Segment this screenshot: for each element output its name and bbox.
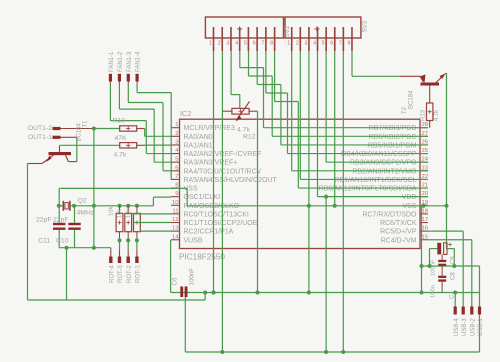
svg-text:C10: C10 <box>56 238 69 245</box>
svg-text:IC2: IC2 <box>180 109 192 118</box>
svg-text:100nF: 100nF <box>431 259 437 276</box>
svg-text:RB7/KBI3/PGD: RB7/KBI3/PGD <box>369 125 417 132</box>
svg-text:3: 3 <box>304 41 307 47</box>
svg-text:14: 14 <box>172 234 179 240</box>
svg-text:MCLR/VPP/RE3: MCLR/VPP/RE3 <box>184 125 235 132</box>
svg-text:11: 11 <box>172 208 178 214</box>
svg-text:RC7/RX/DT/SDO: RC7/RX/DT/SDO <box>362 211 417 218</box>
svg-text:FAN1-4: FAN1-4 <box>136 51 142 72</box>
svg-text:RB2/AN8/INT2/VMO: RB2/AN8/INT2/VMO <box>352 168 417 175</box>
svg-text:RA1/AN1: RA1/AN1 <box>184 142 213 149</box>
svg-text:ROT-1: ROT-1 <box>136 265 142 283</box>
svg-text:15: 15 <box>422 234 429 240</box>
svg-text:USB-3: USB-3 <box>462 318 468 336</box>
svg-text:10k: 10k <box>109 207 115 216</box>
svg-text:ROT-2: ROT-2 <box>127 265 133 283</box>
svg-text:4MHz: 4MHz <box>77 210 95 217</box>
svg-text:17: 17 <box>422 217 429 223</box>
svg-text:RC5/D+/VP: RC5/D+/VP <box>380 229 417 236</box>
svg-text:C9: C9 <box>451 256 457 264</box>
svg-text:10k: 10k <box>126 209 132 218</box>
svg-text:FAN1-2: FAN1-2 <box>118 51 124 72</box>
svg-text:USB-1: USB-1 <box>478 318 484 336</box>
svg-text:USB-4: USB-4 <box>454 318 460 336</box>
svg-text:5: 5 <box>322 41 325 47</box>
svg-text:VUSB: VUSB <box>184 237 203 244</box>
svg-text:RB4/KBI0/AN11/CSSPP: RB4/KBI0/AN11/CSSPP <box>341 151 417 158</box>
svg-text:Q2: Q2 <box>78 198 87 205</box>
svg-text:PIC18F2550: PIC18F2550 <box>179 253 225 262</box>
svg-text:R10: R10 <box>113 118 126 125</box>
svg-text:1: 1 <box>287 41 290 47</box>
svg-text:ROT-3: ROT-3 <box>118 265 124 283</box>
svg-text:5: 5 <box>244 41 247 47</box>
svg-text:RA3/AN3/VREF+: RA3/AN3/VREF+ <box>184 160 238 167</box>
svg-text:4: 4 <box>313 41 316 47</box>
svg-text:ROT-4: ROT-4 <box>109 265 115 283</box>
svg-text:1: 1 <box>209 41 212 47</box>
svg-text:12: 12 <box>172 217 179 223</box>
svg-text:R12: R12 <box>243 134 256 141</box>
svg-text:RC0/T1OSO/T13CKI: RC0/T1OSO/T13CKI <box>184 211 249 218</box>
svg-text:C11: C11 <box>38 238 50 245</box>
svg-text:4.7k: 4.7k <box>434 109 440 121</box>
svg-text:FAN1-1: FAN1-1 <box>109 51 115 72</box>
svg-text:7: 7 <box>339 41 342 47</box>
svg-text:VDD: VDD <box>402 194 417 201</box>
svg-text:OSC1/CLKI: OSC1/CLKI <box>184 194 221 201</box>
svg-text:22pF: 22pF <box>36 217 52 224</box>
svg-text:7: 7 <box>175 174 178 180</box>
svg-text:2: 2 <box>218 41 221 47</box>
svg-text:OUT1-2: OUT1-2 <box>28 125 52 132</box>
svg-text:2: 2 <box>175 131 178 137</box>
svg-text:RC1/T1OSI/CCP2/UOE: RC1/T1OSI/CCP2/UOE <box>184 220 258 227</box>
svg-text:10: 10 <box>172 200 179 206</box>
svg-text:SV3: SV3 <box>362 20 369 32</box>
svg-text:C6: C6 <box>172 277 179 285</box>
svg-text:7: 7 <box>261 41 264 47</box>
svg-text:RB5/KBI1/PGM: RB5/KBI1/PGM <box>368 142 417 149</box>
svg-text:2: 2 <box>296 41 299 47</box>
svg-text:22pF: 22pF <box>53 217 69 224</box>
svg-text:OUT1-1: OUT1-1 <box>28 134 52 141</box>
svg-text:9: 9 <box>175 191 178 197</box>
svg-text:RC6/TX/CK: RC6/TX/CK <box>380 220 417 227</box>
svg-text:100n: 100n <box>431 285 437 298</box>
svg-text:6: 6 <box>330 41 333 47</box>
svg-text:1: 1 <box>175 122 178 128</box>
svg-text:BC184: BC184 <box>77 122 83 141</box>
svg-text:3: 3 <box>227 41 230 47</box>
svg-text:RB3/AN9/CCP2/VPO: RB3/AN9/CCP2/VPO <box>350 160 417 167</box>
svg-text:8: 8 <box>348 41 351 47</box>
svg-text:RB6/KBI2/PGC: RB6/KBI2/PGC <box>369 134 417 141</box>
svg-text:FAN1-3: FAN1-3 <box>127 51 133 72</box>
svg-text:47K: 47K <box>115 135 128 142</box>
svg-text:T2: T2 <box>402 106 408 114</box>
svg-text:RB0/AN12/INT0/FLT0/SDI/SDA: RB0/AN12/INT0/FLT0/SDI/SDA <box>319 186 417 193</box>
svg-text:6: 6 <box>253 41 256 47</box>
svg-text:C8: C8 <box>451 272 457 280</box>
svg-text:10k: 10k <box>117 209 123 218</box>
svg-text:RA5/AN4/SS/HLVDIN/C2OUT: RA5/AN4/SS/HLVDIN/C2OUT <box>184 177 278 184</box>
svg-text:100nF: 100nF <box>189 268 196 286</box>
svg-text:RA0/AN0: RA0/AN0 <box>184 134 213 141</box>
svg-text:8: 8 <box>270 41 273 47</box>
svg-text:4.7k: 4.7k <box>237 127 250 134</box>
svg-text:VSS: VSS <box>184 186 198 193</box>
svg-text:T1: T1 <box>83 120 89 128</box>
svg-text:4: 4 <box>235 41 238 47</box>
svg-text:USB-2: USB-2 <box>470 318 476 336</box>
svg-text:RC4/D-/VM: RC4/D-/VM <box>381 237 417 244</box>
svg-text:4.7k: 4.7k <box>114 152 127 159</box>
svg-text:BC184: BC184 <box>409 90 415 109</box>
svg-text:18: 18 <box>422 208 429 214</box>
svg-text:RB1/AN10/INT1/SCK/SCL: RB1/AN10/INT1/SCK/SCL <box>334 177 416 184</box>
svg-text:16: 16 <box>422 226 429 232</box>
svg-text:RC2/CCP1/P1A: RC2/CCP1/P1A <box>184 229 234 236</box>
svg-text:R13: R13 <box>420 109 426 121</box>
svg-text:13: 13 <box>172 226 179 232</box>
svg-text:SV2: SV2 <box>284 25 291 37</box>
